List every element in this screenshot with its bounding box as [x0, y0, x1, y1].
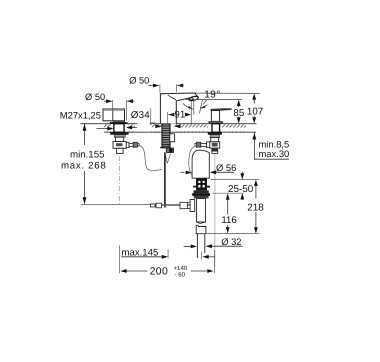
hose strap V lines [166, 154, 171, 163]
svg-text:Ø 32: Ø 32 [221, 236, 241, 247]
svg-text:107: 107 [247, 106, 263, 117]
right valve hose nut [197, 142, 201, 147]
right valve threaded section [210, 135, 220, 138]
aerator vertical reference line [193, 100, 195, 114]
left valve escutcheon base plate (black strip) [110, 122, 128, 124]
spout hose connection nut [166, 148, 173, 153]
rod clamp block [180, 202, 187, 208]
right valve shank tube [211, 138, 219, 142]
right valve tail end box [212, 151, 218, 153]
waste compression fitting [196, 225, 206, 233]
dimension: 107 [247, 94, 263, 124]
left flexible hose to spout [139, 145, 162, 171]
19 degree arc with arrowheads [183, 103, 207, 109]
left valve side outlet pipe [129, 144, 133, 147]
spout body [160, 93, 197, 124]
dimension: O50 left [85, 92, 135, 121]
dimension: O56 [181, 162, 237, 174]
horseshoe washer tick [160, 147, 164, 149]
svg-text:200: 200 [150, 267, 169, 278]
waste centerline extension [201, 252, 203, 260]
left valve body block [113, 142, 126, 149]
svg-text:Ø 50: Ø 50 [129, 75, 149, 85]
svg-text:91: 91 [174, 110, 185, 121]
left valve hose nut [133, 142, 137, 147]
spout aerator ellipse [188, 96, 198, 102]
dimension: O32 [184, 236, 243, 248]
19 degree slant line [199, 100, 207, 114]
dimension: O34 spout shank [131, 109, 181, 129]
svg-text:max.30: max.30 [259, 148, 290, 159]
spout mounting block right of shank [170, 134, 175, 142]
left valve locknut below deck (black flange) [110, 132, 128, 135]
right valve hose nipple [195, 143, 197, 146]
right valve body block [210, 142, 220, 148]
right valve tail nut [211, 148, 218, 151]
svg-text:116: 116 [221, 215, 236, 226]
dimension: 116 [221, 193, 236, 233]
right valve side outlet collar [207, 142, 210, 148]
svg-text:min.155: min.155 [70, 149, 104, 160]
svg-text:Ø34: Ø34 [131, 110, 150, 121]
waste body [197, 199, 206, 223]
left valve cartridge base (gray) [113, 121, 124, 123]
right valve lever blade [211, 109, 231, 111]
svg-text:M27x1,25: M27x1,25 [60, 109, 101, 120]
svg-text:19°: 19° [204, 89, 220, 100]
dimension: 25-50 [211, 172, 260, 200]
right valve side outlet pipe [201, 143, 207, 146]
right valve locknut below deck [208, 132, 222, 135]
min 8,5 max 30 box [253, 133, 290, 160]
left valve threaded section [114, 135, 125, 138]
rod end cap [150, 204, 155, 207]
waste tailpipe [197, 234, 204, 258]
rod collar [156, 203, 162, 208]
pop-up pull rod [164, 153, 166, 208]
left valve through-deck shank [114, 124, 124, 133]
right valve escutcheon base plate [209, 123, 224, 124]
left valve shank tube [115, 137, 123, 141]
waste flange (wide dark bands) [192, 190, 210, 198]
dimension: 91 [168, 101, 192, 124]
left valve tailpiece [117, 148, 124, 153]
countertop deck top line left extension [81, 123, 257, 125]
dimension: 200 +140 -60 [120, 265, 213, 278]
waste lever housing left [190, 200, 195, 212]
dimension: max.145 [121, 247, 215, 258]
dimension: 85 [233, 100, 244, 124]
waste knob base ring (dark, slotted) [193, 178, 210, 190]
svg-text:218: 218 [247, 202, 264, 213]
pop-up waste plug knob [192, 150, 209, 178]
waste body break [197, 222, 206, 224]
left valve centerline [118, 156, 120, 205]
svg-text:max. 268: max. 268 [61, 160, 106, 171]
dimension: min.155 max.268 [61, 124, 106, 204]
pop-up horizontal rod [81, 202, 190, 208]
left valve hose nipple [137, 144, 139, 146]
left valve knob handle [103, 109, 125, 121]
right valve cartridge base gray [209, 121, 223, 123]
dimension: O50 middle spout [129, 75, 183, 92]
right flexible hose to spout [189, 146, 195, 175]
aerator outlet reference line to 85 [186, 99, 243, 101]
right valve through-deck shank [212, 124, 220, 133]
svg-text:- 60: - 60 [175, 272, 186, 279]
dimension: 218 [199, 180, 264, 234]
spout threaded shank below deck [162, 124, 170, 148]
right valve neck [211, 111, 219, 122]
spout top reference line to 107 [195, 92, 260, 94]
left valve side outlet collar [126, 142, 129, 147]
countertop hatch segments [104, 124, 246, 132]
dimension: M27x1,25 label and arrows [60, 109, 137, 130]
right valve centerline [214, 154, 216, 267]
svg-text:Ø 50: Ø 50 [85, 92, 105, 102]
countertop deck bottom line [104, 131, 256, 133]
svg-text:Ø 56: Ø 56 [216, 162, 236, 173]
